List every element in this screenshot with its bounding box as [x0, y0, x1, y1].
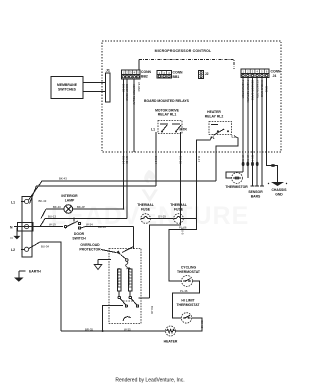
svg-text:THERMAL: THERMAL	[170, 203, 187, 207]
svg-text:SENSOR BARS: SENSOR BARS	[251, 80, 255, 100]
svg-text:PL-36: PL-36	[180, 289, 188, 293]
chassis ground symbol	[268, 180, 287, 187]
svg-text:R-17: R-17	[197, 156, 201, 163]
wire door switch output	[81, 227, 85, 228]
wire RL1 L1 leg	[155, 132, 157, 152]
wire bottom run to heater	[61, 330, 166, 332]
svg-text:SENSOR: SENSOR	[248, 190, 263, 194]
junction motor common on bottom run	[102, 330, 104, 332]
thermistor	[226, 172, 243, 178]
svg-text:CONN: CONN	[141, 70, 152, 74]
svg-text:CYCLING: CYCLING	[181, 266, 197, 270]
svg-text:BU-36: BU-36	[150, 306, 154, 314]
svg-text:SWITCHES: SWITCHES	[58, 88, 77, 92]
wire BB2 pin2 to thermal fuse row	[126, 79, 128, 219]
wire RL1 MTR leg	[180, 132, 182, 152]
wire chassis ground run	[267, 158, 278, 180]
wire cycling to hi-limit	[173, 281, 200, 318]
wire H1 riser to RL2	[215, 152, 217, 181]
svg-text:Rendered by LeadVenture, Inc.: Rendered by LeadVenture, Inc.	[115, 378, 184, 384]
rotor arc	[123, 317, 131, 321]
heater HTR1 element	[166, 326, 176, 336]
wire fuse2 to cycling thermostat	[169, 219, 197, 282]
svg-text:THERM RETURN: THERM RETURN	[246, 80, 250, 102]
connector CONN BB1	[157, 71, 172, 79]
lamp DS1 interior lamp	[64, 205, 73, 214]
connector J1	[106, 73, 111, 102]
motor start winding	[118, 269, 121, 291]
connector CONN J4	[241, 69, 269, 77]
thermostat S2 hi-limit	[181, 313, 191, 323]
svg-text:BARS: BARS	[251, 195, 261, 199]
wire BB2 pin5 riser	[138, 60, 140, 70]
svg-text:BU-34: BU-34	[41, 245, 49, 249]
svg-text:DOOR: DOOR	[74, 232, 85, 236]
microprocessor control dashed enclosure	[102, 41, 281, 152]
wire dash-dot board link	[139, 60, 234, 70]
inline connectors on sensor wires	[242, 162, 259, 166]
wire thermal fuse feed row	[40, 219, 127, 227]
svg-text:MICROPROCESSOR CONTROL: MICROPROCESSOR CONTROL	[155, 49, 212, 53]
svg-text:W-34: W-34	[86, 222, 93, 226]
svg-text:CONN: CONN	[271, 70, 282, 74]
connector CONN BB2	[122, 70, 141, 79]
wire J4 pin2 to thermistor return	[247, 78, 249, 178]
svg-text:2: 2	[126, 70, 128, 74]
lamp feed drop	[41, 209, 46, 219]
wire motor common to bottom	[103, 306, 123, 331]
svg-text:BB2: BB2	[141, 75, 148, 79]
svg-text:HEATER: HEATER	[164, 340, 178, 344]
svg-text:3: 3	[130, 70, 132, 74]
ground at N terminal	[16, 228, 19, 236]
svg-text:L1: L1	[232, 135, 236, 139]
svg-text:CHASSIS: CHASSIS	[271, 188, 287, 192]
svg-text:SWITCH: SWITCH	[72, 237, 86, 241]
svg-text:GY-10: GY-10	[125, 156, 129, 164]
svg-text:BU-13: BU-13	[48, 214, 56, 218]
connector J2	[199, 71, 204, 79]
wire hi-limit to heater	[176, 318, 203, 331]
svg-text:THERMISTOR: THERMISTOR	[241, 80, 245, 98]
wire BB2 pin1 to lamp return	[123, 79, 125, 209]
wire RL2 L1 to H1 riser	[216, 137, 238, 153]
riser RL2 P1 down to fuse row	[196, 152, 198, 219]
terminal block TB1	[17, 196, 32, 257]
wire RL2 P1 output	[197, 137, 213, 153]
svg-text:BK-62: BK-62	[200, 321, 204, 329]
wire motor right contact to MTR riser	[139, 297, 150, 299]
svg-text:BK-14: BK-14	[154, 156, 158, 164]
wire lamp return	[73, 208, 124, 210]
svg-text:W-46: W-46	[246, 155, 250, 162]
wire between fuses	[150, 218, 173, 220]
ground motor case	[94, 265, 102, 270]
svg-text:CONN: CONN	[173, 71, 184, 75]
svg-text:GND: GND	[265, 86, 269, 92]
wire overload ground branch	[98, 259, 111, 261]
svg-text:BOARD MOUNTED RELAYS: BOARD MOUNTED RELAYS	[144, 99, 190, 103]
wire J4 pin4 to sensor bar	[256, 78, 258, 186]
svg-text:LAMP: LAMP	[65, 199, 75, 203]
motor main winding	[129, 269, 132, 291]
wire J4 pin1 to thermistor	[242, 78, 244, 172]
svg-text:BU-5: BU-5	[181, 228, 185, 235]
relay RL1	[158, 121, 182, 134]
svg-text:BU-14: BU-14	[122, 156, 126, 164]
door feed to motor	[133, 227, 135, 249]
svg-text:J2: J2	[205, 72, 209, 76]
wire neutral row to door switch	[14, 226, 63, 228]
wire J4 pin3 to sensor bar	[252, 78, 254, 186]
fuse F2 thermal fuse	[174, 214, 184, 224]
svg-text:J1: J1	[106, 68, 111, 73]
svg-text:4: 4	[134, 70, 136, 74]
svg-text:BR-35: BR-35	[85, 327, 93, 331]
svg-text:BK-38: BK-38	[122, 84, 126, 92]
svg-text:GY-29: GY-29	[158, 214, 166, 218]
door switch	[64, 218, 80, 230]
svg-text:FUSE: FUSE	[174, 208, 184, 212]
wire J4 pin5 shield	[261, 78, 263, 186]
svg-text:SHIELD GND: SHIELD GND	[260, 80, 264, 97]
svg-text:THERMOSTAT: THERMOSTAT	[177, 270, 201, 274]
svg-text:FUSE: FUSE	[141, 208, 151, 212]
svg-text:7A VAC: 7A VAC	[137, 82, 141, 92]
svg-text:W-41: W-41	[241, 155, 245, 162]
relay RL2	[209, 122, 232, 136]
svg-text:DOOR SENS: DOOR SENS	[125, 84, 129, 101]
svg-text:INTERIOR: INTERIOR	[61, 194, 78, 198]
svg-text:BK-40: BK-40	[53, 205, 61, 209]
switch overload protector contacts	[116, 247, 134, 270]
junction lamp riser	[123, 208, 125, 210]
svg-text:N: N	[10, 225, 13, 229]
svg-text:SENSOR RTN: SENSOR RTN	[255, 80, 259, 98]
wire lamp feed	[46, 208, 64, 210]
svg-text:L1: L1	[151, 128, 155, 132]
svg-text:THERMISTOR: THERMISTOR	[225, 185, 248, 189]
wire membrane to J1 upper	[83, 82, 106, 84]
svg-text:BK-43: BK-43	[59, 177, 67, 181]
wire L2 feed	[29, 242, 61, 331]
svg-text:EARTH: EARTH	[29, 270, 41, 274]
svg-text:BR-16: BR-16	[98, 225, 106, 229]
svg-text:HEATER RELAY: HEATER RELAY	[132, 84, 136, 105]
svg-text:5: 5	[137, 70, 139, 74]
svg-text:OVERLOAD: OVERLOAD	[80, 243, 100, 247]
svg-text:START WINDING: START WINDING	[116, 270, 119, 288]
svg-text:THERMOSTAT: THERMOSTAT	[176, 303, 200, 307]
motor M1 assembly dashed box	[109, 249, 141, 324]
svg-text:N: N	[10, 236, 12, 240]
svg-text:PROTECTOR: PROTECTOR	[79, 248, 101, 252]
thermostat S1 cycling	[182, 276, 193, 287]
svg-text:BK-JP: BK-JP	[77, 205, 85, 209]
earth ground	[19, 270, 26, 272]
svg-text:MEMBRANE: MEMBRANE	[57, 83, 78, 87]
svg-text:HEATER: HEATER	[207, 110, 221, 114]
svg-text:L1: L1	[11, 200, 15, 204]
fuse F1 thermal fuse	[141, 214, 151, 224]
terminal L2	[21, 247, 29, 251]
svg-text:MTR: MTR	[180, 128, 188, 132]
wire H2 riser (RL1 L1)	[155, 152, 157, 186]
overload leader	[101, 250, 116, 253]
svg-text:RELAY RL2: RELAY RL2	[205, 115, 224, 119]
svg-text:THERMAL: THERMAL	[137, 203, 154, 207]
watermark flame logo	[142, 170, 159, 203]
sensor bars	[251, 185, 255, 187]
membrane switches box	[51, 77, 83, 99]
svg-text:BB1: BB1	[173, 75, 180, 79]
centrifugal switch	[118, 291, 139, 307]
svg-text:W-19: W-19	[49, 222, 56, 226]
terminal N	[14, 225, 29, 229]
wire H2	[30, 186, 156, 203]
svg-text:GND: GND	[275, 193, 283, 197]
wire BB2 pin4 stub	[133, 79, 135, 152]
svg-text:HI LIMIT: HI LIMIT	[181, 299, 195, 303]
svg-text:1: 1	[123, 70, 125, 74]
svg-text:W-35: W-35	[124, 327, 131, 331]
svg-text:L2: L2	[11, 248, 15, 252]
wire H1 L1 feed to heater relay	[29, 181, 217, 200]
svg-text:BK-43: BK-43	[39, 199, 47, 203]
svg-text:MAIN WINDING: MAIN WINDING	[127, 270, 130, 287]
wire membrane to J1 lower	[83, 91, 106, 93]
wire J4 pin6 to chassis ground	[266, 78, 268, 158]
svg-text:RELAY RL1: RELAY RL1	[158, 113, 177, 117]
svg-text:J4: J4	[273, 74, 277, 78]
terminal L1	[21, 199, 29, 203]
